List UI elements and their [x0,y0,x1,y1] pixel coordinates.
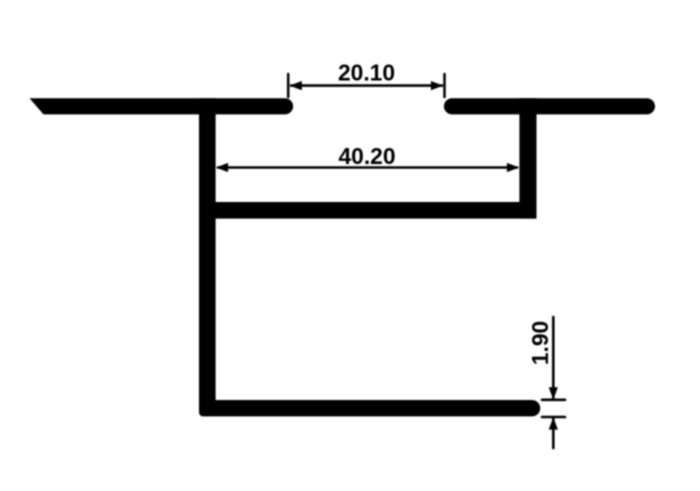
svg-text:40.20: 40.20 [338,143,395,169]
svg-text:1.90: 1.90 [527,321,553,365]
svg-text:20.10: 20.10 [338,59,395,85]
